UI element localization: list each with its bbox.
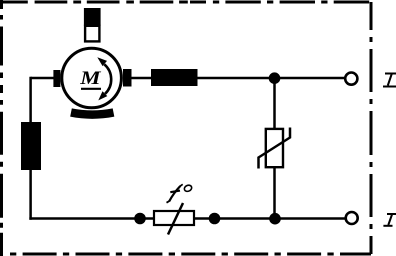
node D (junction of varistor branch with top rail) <box>269 72 281 84</box>
wire: varistor branch upper segment <box>273 78 276 128</box>
terminal 2 (bottom right) <box>346 212 358 224</box>
value label t° <box>167 184 193 203</box>
resistor R1 (filled, left branch) <box>21 122 41 170</box>
motor M1 (armature circle) <box>62 48 122 108</box>
motor rotation arrow (double headed arc) <box>97 57 111 100</box>
wire: left vertical run down to bottom rail <box>29 77 32 220</box>
wire: motor right brush to resistor R2 <box>132 77 152 80</box>
node C (junction of varistor branch with bottom rail) <box>269 213 281 225</box>
motor pole shoe (thick bottom arc) <box>71 113 114 115</box>
wire: resistor R2 to terminal 1 <box>198 77 346 80</box>
resistor R2 (filled, top branch) <box>151 69 198 86</box>
varistor R4 <box>259 128 291 169</box>
wire: bottom rail left segment <box>29 217 154 220</box>
wire: varistor branch lower segment <box>273 168 276 220</box>
svg-text:M: M <box>79 67 102 89</box>
wire: motor left brush to left vertical run <box>31 77 54 80</box>
fuse F1 (top element, half filled) <box>84 8 101 41</box>
label 1 (cut off at right edge) <box>383 74 396 87</box>
node A (junction dot left of thermistor) <box>134 213 146 225</box>
node B (junction dot right of thermistor) <box>209 213 221 225</box>
thermistor R3 (t°) <box>154 203 194 235</box>
motor brush (right) <box>123 69 132 87</box>
terminal 1 (top right) <box>345 73 357 85</box>
motor brush (left) <box>53 70 60 87</box>
motor letter M (underlined) <box>79 67 102 89</box>
wire: bottom rail right segment <box>194 217 346 220</box>
label 2 (cut off at right edge) <box>383 214 396 226</box>
